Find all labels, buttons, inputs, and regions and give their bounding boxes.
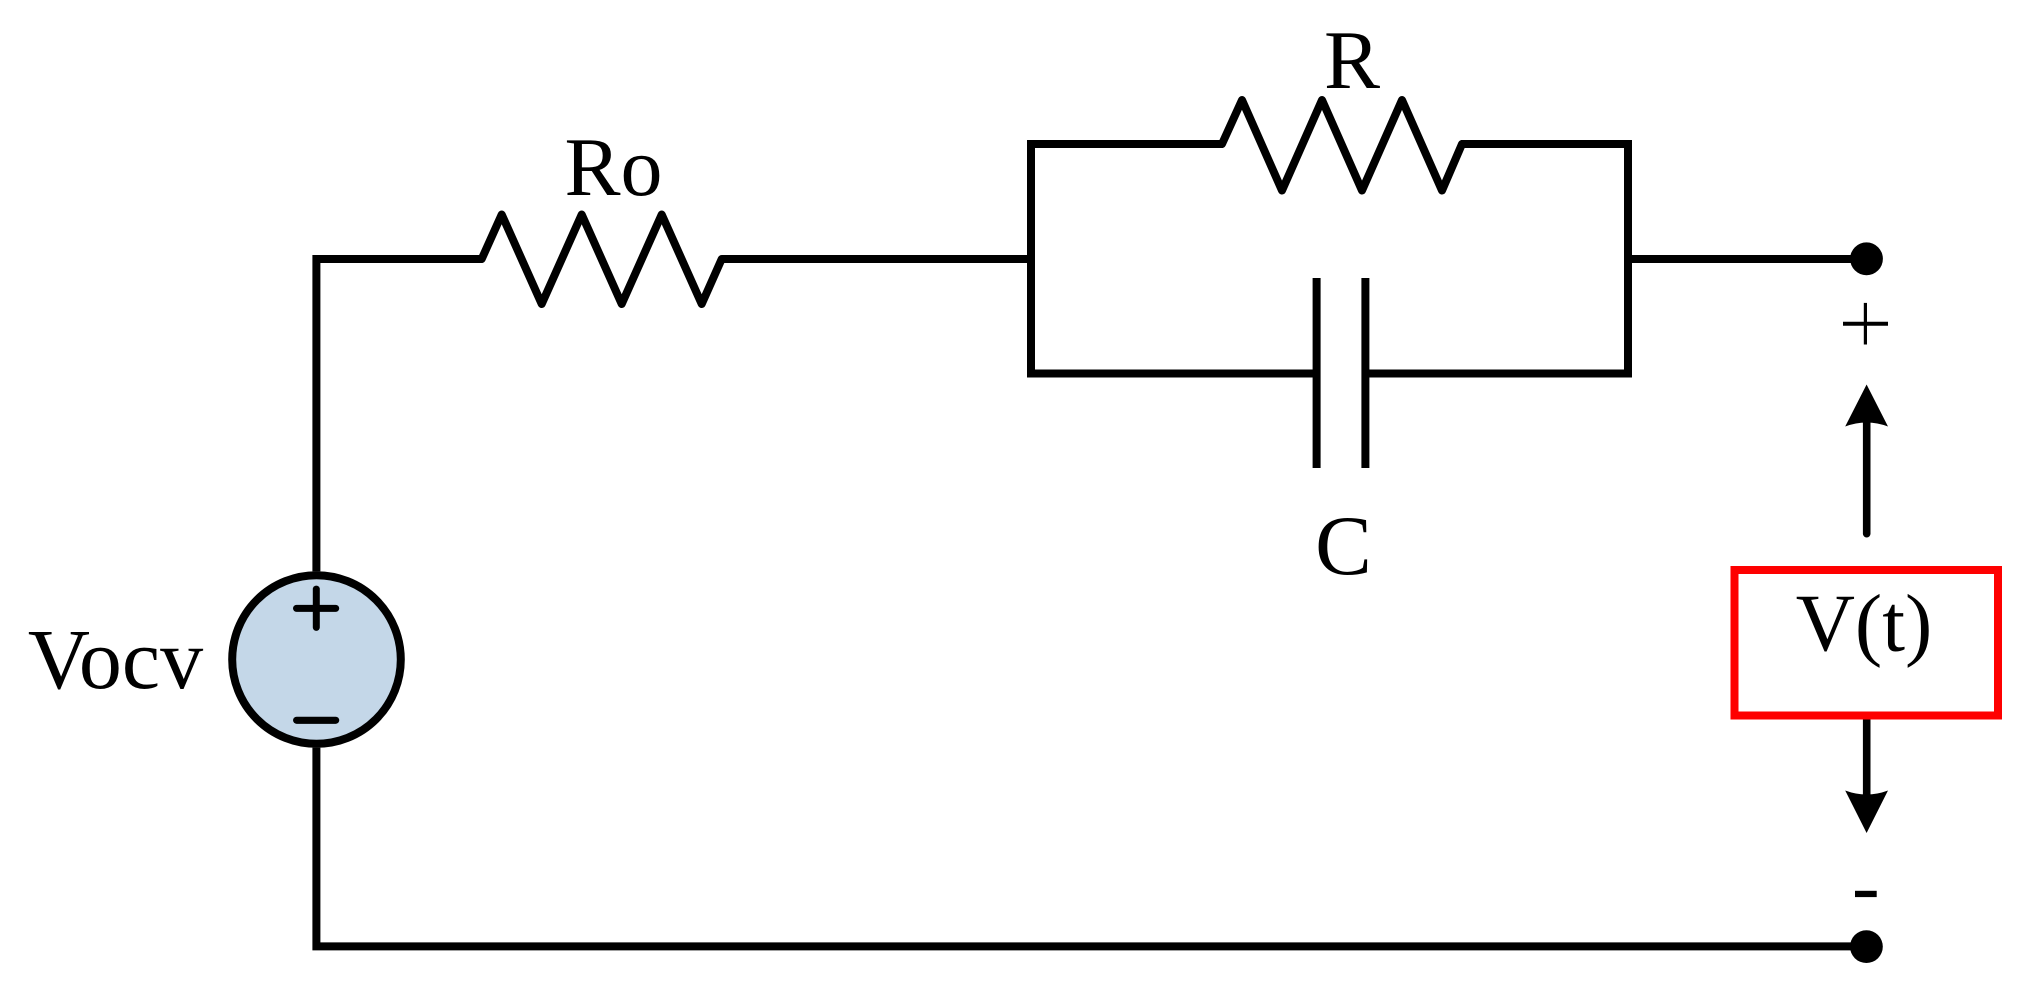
svg-text:V(t): V(t) (1796, 578, 1933, 669)
svg-text:C: C (1315, 499, 1372, 593)
svg-text:Ro: Ro (564, 121, 662, 214)
svg-text:R: R (1324, 14, 1380, 107)
svg-text:Vocv: Vocv (28, 611, 203, 707)
